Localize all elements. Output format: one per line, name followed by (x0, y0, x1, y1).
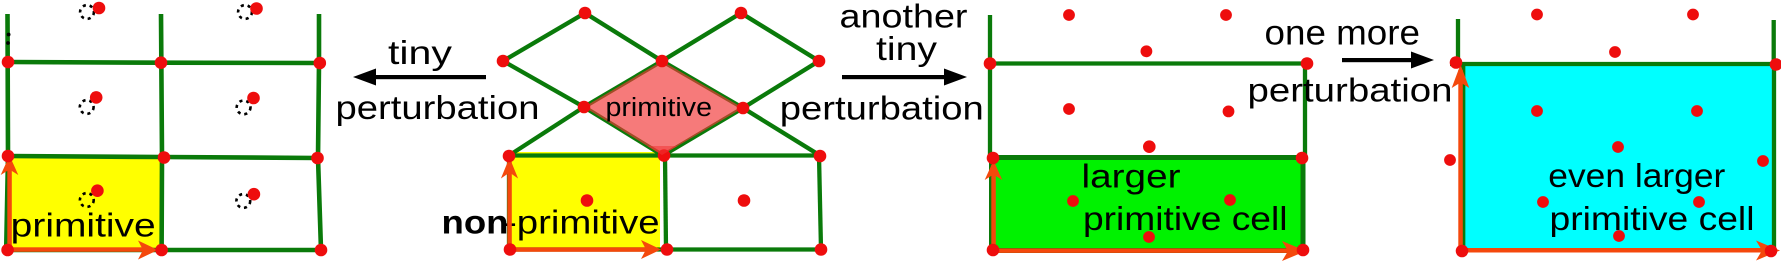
svg-text:primitive: primitive (11, 208, 156, 245)
svg-text:tiny: tiny (388, 35, 452, 72)
svg-text:non: non (442, 205, 509, 242)
svg-text:tiny: tiny (876, 31, 937, 68)
svg-text:one more: one more (1265, 14, 1421, 53)
svg-text:perturbation: perturbation (780, 90, 984, 127)
svg-text:primitive cell: primitive cell (1550, 201, 1755, 238)
svg-text:primitive cell: primitive cell (1083, 201, 1288, 238)
svg-text:perturbation: perturbation (336, 90, 540, 127)
svg-text:primitive: primitive (606, 94, 713, 122)
svg-text:even larger: even larger (1548, 158, 1725, 195)
svg-text:perturbation: perturbation (1248, 72, 1453, 109)
svg-text:-primitive: -primitive (504, 205, 660, 242)
svg-text:larger: larger (1082, 158, 1181, 195)
